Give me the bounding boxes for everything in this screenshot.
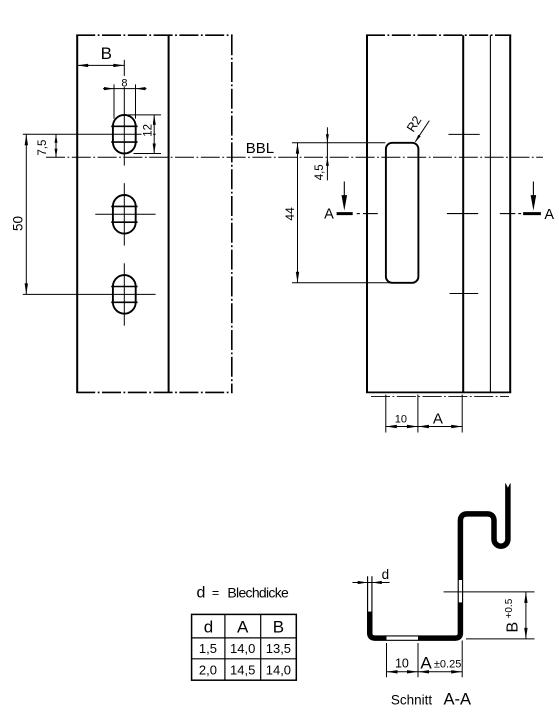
svg-text:2,0: 2,0	[199, 662, 217, 677]
svg-text:d: d	[197, 585, 206, 602]
svg-text:BBL: BBL	[246, 140, 274, 157]
svg-text:A: A	[324, 206, 334, 222]
svg-text:7,5: 7,5	[37, 140, 49, 156]
svg-text:14,0: 14,0	[266, 662, 291, 677]
svg-text:A: A	[237, 618, 249, 637]
svg-text:14,5: 14,5	[230, 662, 255, 677]
svg-text:50: 50	[11, 216, 26, 231]
svg-text:A: A	[433, 411, 443, 428]
svg-text:B: B	[273, 618, 284, 637]
svg-text:B: B	[504, 622, 521, 633]
svg-text:4,5: 4,5	[314, 164, 326, 180]
svg-text:44: 44	[283, 207, 297, 221]
svg-text:13,5: 13,5	[266, 641, 291, 656]
svg-text:10: 10	[395, 414, 407, 426]
svg-text:Blechdicke: Blechdicke	[227, 584, 289, 600]
svg-text:Schnitt: Schnitt	[391, 692, 433, 707]
svg-text:12: 12	[142, 124, 154, 137]
svg-text:±0.25: ±0.25	[434, 658, 461, 670]
svg-text:d: d	[382, 567, 390, 582]
svg-text:B: B	[101, 44, 112, 63]
svg-text:1,5: 1,5	[199, 641, 217, 656]
svg-text:8: 8	[121, 78, 127, 90]
svg-text:A-A: A-A	[443, 691, 471, 709]
svg-text:10: 10	[395, 656, 409, 670]
svg-text:d: d	[204, 618, 213, 637]
svg-text:=: =	[212, 586, 219, 600]
svg-text:14,0: 14,0	[230, 641, 255, 656]
svg-text:A: A	[420, 653, 432, 672]
svg-text:A: A	[544, 207, 554, 223]
svg-text:+0.5: +0.5	[504, 598, 515, 618]
